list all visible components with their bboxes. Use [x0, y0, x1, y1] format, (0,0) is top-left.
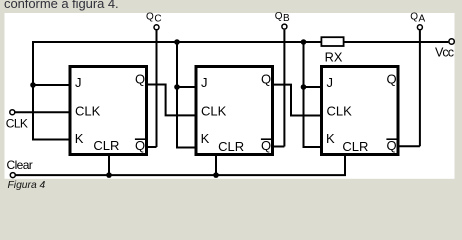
svg-text:Q: Q [135, 138, 145, 153]
svg-text:Q: Q [387, 138, 397, 153]
svg-text:Q: Q [135, 72, 145, 87]
svg-text:J: J [75, 75, 82, 90]
svg-text:Q: Q [261, 138, 271, 153]
svg-text:CLK: CLK [6, 117, 28, 131]
svg-text:J: J [201, 75, 208, 90]
svg-text:K: K [75, 131, 84, 146]
svg-text:CLR: CLR [93, 138, 119, 153]
svg-text:Q: Q [261, 72, 271, 87]
svg-text:C: C [154, 14, 161, 25]
svg-text:Clear: Clear [7, 158, 33, 172]
svg-text:CLK: CLK [327, 104, 353, 119]
svg-text:Vcc: Vcc [435, 46, 454, 60]
svg-text:J: J [327, 75, 334, 90]
svg-text:RX: RX [325, 49, 343, 64]
svg-text:CLR: CLR [218, 139, 244, 154]
svg-text:Q: Q [387, 72, 397, 87]
svg-text:B: B [283, 13, 290, 24]
svg-text:Q: Q [275, 11, 283, 22]
svg-text:Q: Q [146, 12, 154, 23]
svg-text:K: K [326, 131, 335, 146]
svg-text:CLR: CLR [342, 139, 368, 154]
svg-text:CLK: CLK [75, 104, 101, 119]
svg-text:Q: Q [410, 12, 418, 23]
svg-text:A: A [419, 14, 426, 25]
svg-text:CLK: CLK [201, 104, 227, 119]
svg-text:K: K [201, 131, 210, 146]
